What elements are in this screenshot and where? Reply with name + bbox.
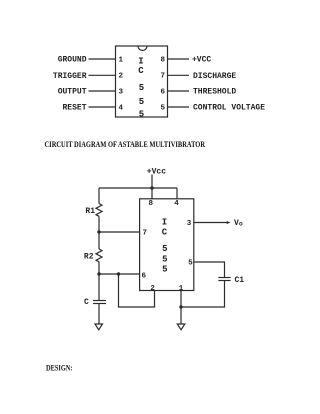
wire pin5 CONTROL VOLTAGE — [168, 106, 190, 108]
IC U1 555 pin-diagram body — [116, 46, 168, 117]
svg-text:R1: R1 — [85, 207, 95, 216]
capacitor C — [93, 300, 106, 302]
svg-text:5: 5 — [139, 83, 144, 93]
wire pin2 TRIGGER — [89, 74, 116, 76]
wire pin6 THRESHOLD — [168, 90, 190, 92]
wire pin1 down — [180, 291, 182, 325]
svg-text:I: I — [162, 217, 167, 227]
svg-text:OUTPUT: OUTPUT — [58, 88, 87, 97]
svg-text:+Vcc: +Vcc — [147, 168, 166, 177]
wire pin8 stub — [151, 188, 153, 199]
svg-text:2: 2 — [150, 285, 155, 293]
svg-text:Vo: Vo — [234, 219, 243, 228]
wire pin1 node to C1 bottom — [181, 281, 225, 308]
wire Vcc drop — [151, 175, 153, 189]
wire pin1 GROUND — [89, 58, 116, 60]
wire C to ground — [98, 304, 100, 325]
wire pin8 +VCC — [168, 58, 190, 60]
wire pin4 RESET — [89, 106, 116, 108]
junction dot pin1 — [179, 305, 182, 308]
svg-text:DESIGN:: DESIGN: — [46, 364, 73, 373]
svg-text:C: C — [162, 228, 168, 238]
wire pin3 OUTPUT — [89, 90, 116, 92]
svg-text:5: 5 — [162, 265, 167, 275]
IC U1 notch — [138, 46, 147, 51]
svg-text:7: 7 — [160, 73, 165, 81]
wire pin7 DISCHARGE — [168, 74, 190, 76]
wire pin5 to C1 — [194, 262, 225, 278]
svg-text:R2: R2 — [84, 253, 94, 262]
wire R1 to node7 — [98, 216, 100, 232]
svg-text:C1: C1 — [235, 276, 245, 285]
svg-text:5: 5 — [160, 104, 165, 112]
resistor R2 — [96, 249, 102, 262]
wire R2 to node6 — [98, 262, 100, 274]
svg-text:CIRCUIT DIAGRAM OF ASTABLE MUL: CIRCUIT DIAGRAM OF ASTABLE MULTIVIBRATOR — [45, 139, 206, 149]
wire node to pin6 — [99, 273, 140, 275]
svg-text:CONTROL VOLTAGE: CONTROL VOLTAGE — [193, 104, 265, 113]
junction dot Vcc — [150, 186, 153, 189]
wire left drop to R1 — [98, 188, 100, 204]
IC U2 555 body — [140, 199, 194, 291]
junction dot pin2 loop — [117, 272, 120, 275]
svg-text:8: 8 — [149, 200, 154, 208]
svg-text:1: 1 — [179, 285, 184, 293]
ground left — [95, 324, 103, 330]
svg-text:3: 3 — [187, 220, 192, 228]
svg-text:4: 4 — [119, 104, 124, 112]
svg-text:5: 5 — [162, 244, 167, 254]
svg-text:2: 2 — [119, 73, 124, 81]
wire pin2 loop — [119, 274, 155, 307]
svg-text:GROUND: GROUND — [58, 56, 87, 65]
svg-text:8: 8 — [160, 56, 165, 64]
wire node6 down to C — [98, 274, 100, 300]
svg-text:5: 5 — [139, 97, 144, 107]
svg-text:7: 7 — [143, 230, 148, 238]
svg-text:TRIGGER: TRIGGER — [53, 72, 87, 81]
svg-text:3: 3 — [119, 88, 124, 96]
svg-text:+VCC: +VCC — [192, 56, 211, 65]
svg-text:6: 6 — [142, 273, 147, 281]
ground right — [177, 324, 185, 330]
svg-text:DISCHARGE: DISCHARGE — [193, 72, 236, 81]
junction dot node6 — [97, 272, 100, 275]
junction dot node7 — [97, 230, 100, 233]
capacitor C1 — [218, 277, 230, 279]
svg-text:5: 5 — [139, 110, 144, 120]
wire pin3 to Vo — [194, 222, 228, 224]
svg-text:5: 5 — [188, 259, 193, 267]
svg-text:THRESHOLD: THRESHOLD — [193, 88, 236, 97]
wire top rail — [99, 187, 177, 189]
svg-text:1: 1 — [119, 56, 124, 64]
wire node7 to R2 — [98, 232, 100, 249]
resistor R1 — [96, 204, 102, 217]
svg-text:I: I — [138, 57, 143, 67]
svg-text:6: 6 — [160, 88, 165, 96]
svg-text:RESET: RESET — [62, 104, 86, 113]
wire node to pin7 — [99, 231, 140, 233]
svg-text:4: 4 — [174, 200, 179, 208]
wire pin4 stub — [176, 188, 178, 199]
svg-text:C: C — [84, 298, 89, 307]
svg-text:C: C — [138, 66, 144, 76]
arrow Vo — [227, 221, 231, 224]
svg-text:5: 5 — [162, 254, 167, 264]
